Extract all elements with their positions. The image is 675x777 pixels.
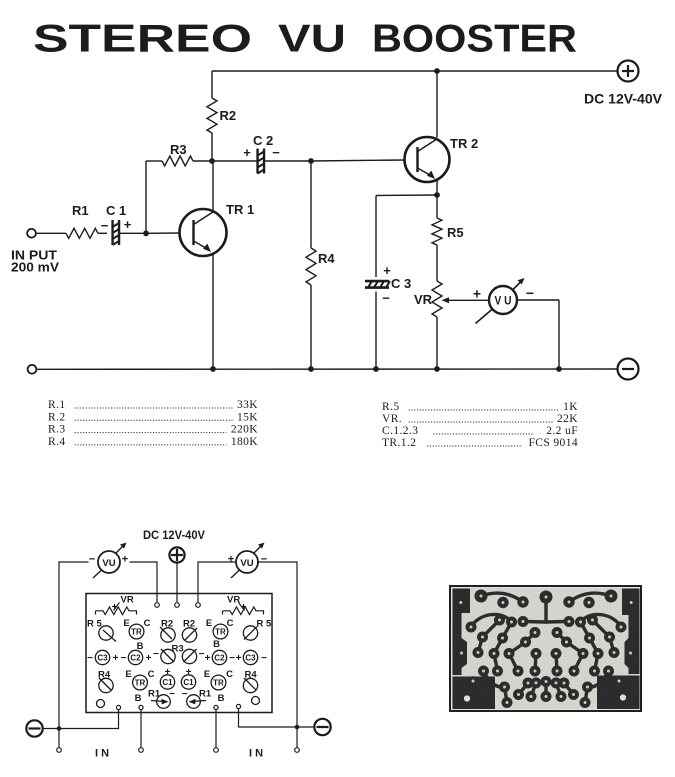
terminal minus right [618,359,639,380]
pad input left end [139,748,144,753]
svg-text:TR: TR [215,628,226,637]
svg-text:R3: R3 [170,142,187,157]
terminal minus left (board) [26,720,42,736]
svg-text:22K: 22K [557,413,578,425]
svg-text:C 1: C 1 [106,203,126,218]
wire input to R1 [36,232,66,234]
PCB copper pour bottom-left [453,677,496,710]
wire node to TR2 base [311,160,404,161]
meter VU [489,286,517,314]
svg-text:+: + [146,653,152,664]
svg-text:C3: C3 [245,654,256,663]
PCB copper pour left [453,589,471,676]
PCB copper pour bottom-right [597,676,640,710]
svg-text:+: + [473,286,481,302]
svg-text:TR: TR [135,679,146,688]
node junction C2/R4/TR2 base [308,158,314,164]
svg-text:R2: R2 [220,108,237,123]
wire base node to TR1 [146,232,180,234]
svg-text:C1: C1 [162,678,173,687]
capacitor C1 [111,220,113,245]
svg-text:TR 1: TR 1 [226,202,254,217]
node junction top rail / TR2 collector [434,68,440,74]
VU arrow [513,281,523,291]
svg-text:E: E [206,618,212,629]
pad VU left [155,603,160,608]
svg-text:−: − [526,285,534,301]
svg-text:VR.: VR. [382,413,402,425]
svg-text:+: + [243,145,251,160]
node junction VU drop / ground rail [556,366,562,372]
PCB copper pour right [622,589,640,675]
wire R3 to TR1 base [145,161,147,233]
wire bottom ground rail [37,368,618,370]
terminal input [27,229,36,238]
transistor TR2 [405,137,450,182]
wire plus terminal to board [176,563,178,602]
node junction R4 / ground rail [308,366,314,372]
terminal minus right (board) [314,719,330,735]
svg-text:B: B [213,639,220,650]
svg-text:C2: C2 [130,654,141,663]
node junction R3 / TR1 base [143,230,149,236]
svg-text:E: E [204,669,210,680]
svg-text:−: − [153,649,159,660]
svg-text:C1: C1 [183,678,194,687]
wire board input right down [215,710,217,748]
PCB mounting hole right [620,694,626,700]
PCB scan grain [452,588,639,709]
resistor R1 [66,228,98,238]
svg-text:+: + [236,653,242,664]
transistor TR left-upper (board) [129,624,144,639]
transistor TR left-lower (board) [133,675,148,690]
PCB pads mirrored [605,590,618,603]
VU right needle [231,570,240,579]
svg-text:−: − [182,689,188,700]
svg-text:R.1: R.1 [48,399,66,411]
wire TR2 emitter [436,179,438,195]
svg-text:2.2 uF: 2.2 uF [546,425,578,437]
svg-text:I N: I N [95,748,109,760]
PCB traces [481,593,523,602]
pad VU right minus end [295,748,300,753]
resistor R3 [146,160,162,162]
svg-text:TR.1.2: TR.1.2 [382,437,416,449]
capacitor C3 [365,280,389,283]
svg-text:R1: R1 [199,689,212,700]
svg-text:VR: VR [414,292,433,307]
svg-text:R.3: R.3 [48,424,66,436]
svg-text:−: − [229,653,235,664]
svg-text:TR: TR [213,679,224,688]
node junction R2/R3/C2/TR1 collector [209,158,215,164]
wire board ground right to minus terminal [239,709,315,727]
svg-text:BOOSTER: BOOSTER [372,18,577,61]
svg-text:C 2: C 2 [253,133,273,148]
wire VU right plus to board [198,562,237,602]
node junction VU left minus / ground [57,726,62,731]
svg-text:DC 12V-40V: DC 12V-40V [584,91,663,107]
mounting hole left (board) [97,700,105,708]
svg-text:C 3: C 3 [391,276,411,291]
meter VU right [236,551,258,573]
svg-text:+: + [124,217,132,232]
svg-text:+: + [383,263,391,278]
svg-text:+: + [228,554,234,566]
pad input right end [214,748,219,753]
svg-text:C3: C3 [97,654,108,663]
svg-text:C: C [148,669,155,680]
svg-text:R.2: R.2 [48,411,66,423]
wire VU right minus down to pad [258,562,298,748]
svg-text:+: + [112,602,118,613]
svg-text:180K: 180K [231,436,258,448]
svg-text:R5: R5 [447,225,464,240]
svg-text:TR 2: TR 2 [450,136,478,151]
svg-text:220K: 220K [231,424,258,436]
svg-text:−: − [101,218,109,233]
resistor R2 [211,71,213,98]
board outline [86,594,272,713]
svg-text:R 5: R 5 [257,619,273,630]
svg-text:C: C [144,618,151,629]
wire C3 to ground rail [375,292,377,370]
transistor TR right-upper (board) [213,624,228,639]
svg-text:B: B [135,693,142,704]
svg-text:−: − [261,653,267,664]
wire junction to C2 [212,160,257,162]
wire VU left minus down to pad [59,562,89,748]
svg-text:−: − [87,653,93,664]
svg-text:C.1.2.3: C.1.2.3 [382,425,418,437]
PCB traces mirrored [569,593,611,602]
wire emitter node to C3 branch [376,194,437,197]
svg-text:33K: 33K [237,399,258,411]
wire C2 to R4 node [265,160,312,162]
node junction VR / ground rail [434,366,440,372]
svg-text:+: + [205,653,211,664]
pad ground right (board) [236,704,240,708]
resistor R4 [310,161,312,248]
wire C1 to base node [120,232,147,234]
svg-text:−: − [261,554,267,566]
svg-text:E: E [125,669,131,680]
pad supply [175,603,180,608]
svg-text:DC 12V-40V: DC 12V-40V [143,528,205,542]
mounting hole right (board) [252,697,260,705]
svg-text:VR: VR [121,595,134,606]
svg-text:V U: V U [495,296,512,308]
svg-text:C: C [226,669,233,680]
transistor TR right-lower (board) [211,675,226,690]
svg-text:R.4: R.4 [48,436,66,448]
transistor TR1 [180,209,227,256]
VU needle [476,309,494,324]
wire board ground left to minus terminal [43,710,119,729]
svg-text:R4: R4 [318,251,335,266]
potentiometer VR [432,281,442,317]
svg-text:−: − [89,554,95,566]
svg-text:R.5: R.5 [382,401,400,413]
svg-text:+: + [165,667,171,678]
svg-text:I N: I N [249,748,263,760]
PCB pads [475,590,488,603]
svg-text:STEREO: STEREO [33,18,252,61]
svg-text:VU: VU [278,18,346,61]
meter VU left [98,551,120,573]
svg-text:C: C [227,618,234,629]
svg-text:−: − [272,145,280,160]
wire board input left down [140,710,142,748]
resistor R5 [436,195,438,218]
svg-text:TR: TR [131,628,142,637]
wire TR1 emitter down [212,253,214,369]
node junction C3 / ground rail [373,366,379,372]
svg-text:15K: 15K [237,411,258,423]
svg-text:VR: VR [227,595,240,606]
wire VU to ground drop [517,299,559,301]
terminal plus DC supply [618,61,639,82]
node junction VU right minus / ground [295,725,300,730]
pad VU left minus end [57,748,62,753]
pad input left (board) [139,705,143,709]
capacitor C2 [256,149,258,174]
pad VU right [196,603,201,608]
wire TR1 collector up [212,161,214,210]
svg-text:VU: VU [102,558,115,569]
wire VU left plus to board [130,562,158,602]
svg-text:+: + [186,667,192,678]
VU left needle [93,570,102,579]
terminal ground left [28,365,37,374]
VU left arrow [116,545,125,554]
PCB mounting hole left [464,695,470,701]
svg-text:R1: R1 [72,203,89,218]
terminal plus supply (board) [169,547,184,562]
wire R1 to C1 [98,232,107,234]
PCB photo frame [450,586,641,711]
svg-text:R3: R3 [172,644,184,655]
node junction TR1 emitter / ground rail [210,366,216,372]
svg-text:+: + [122,554,128,566]
svg-text:1K: 1K [563,401,578,413]
pad input right (board) [214,705,218,709]
svg-text:E: E [123,618,129,629]
svg-text:B: B [218,693,225,704]
node junction TR2 emitter / C3 / R5 [434,192,440,198]
wire top supply rail [212,70,618,72]
svg-text:200 mV: 200 mV [11,261,60,275]
svg-text:+: + [113,653,119,664]
svg-text:C2: C2 [214,654,225,663]
VU right arrow [254,545,263,554]
svg-text:VU: VU [240,558,253,569]
svg-text:+: + [241,602,247,613]
svg-text:R1: R1 [148,689,161,700]
svg-text:FCS 9014: FCS 9014 [528,437,578,449]
svg-text:−: − [121,653,127,664]
svg-text:−: − [382,291,390,306]
wiper arrow VR to VU [442,297,450,303]
wire TR2 collector [436,71,438,138]
pad ground left (board) [116,705,120,709]
